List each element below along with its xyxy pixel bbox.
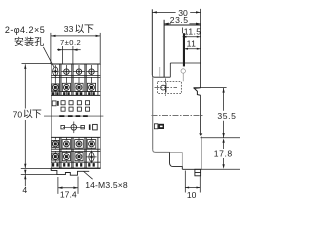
side view: lower right edge — [201, 136, 203, 169]
svg-text:φ4.2×5: φ4.2×5 — [14, 25, 46, 35]
side view: right edge upper — [200, 25, 202, 88]
center target crosshair — [71, 125, 77, 131]
svg-text:11: 11 — [187, 38, 197, 48]
side view: bottom foot — [170, 151, 183, 153]
dim 11.5 — [182, 28, 184, 34]
mounting hole bottom-right — [89, 152, 94, 161]
side view: top edge — [164, 24, 200, 26]
svg-text:17.4: 17.4 — [60, 189, 77, 199]
front feet / DIN profile — [51, 168, 89, 175]
side view: DIN hook tip triangle — [199, 133, 202, 136]
svg-text:23.5: 23.5 — [170, 15, 189, 25]
step ext line — [201, 137, 241, 139]
dim 17.8 — [223, 142, 225, 150]
terminal screws row3 — [52, 140, 59, 147]
leader + label 14-M3.5x8 terminal screws — [84, 171, 93, 179]
svg-text:2-: 2- — [5, 25, 14, 35]
dim 33 or less (top width) — [50, 33, 52, 64]
dim 70 or less (left height) — [22, 63, 52, 65]
side view: bottom edge — [182, 168, 202, 170]
dim 10 (bottom) — [184, 171, 186, 193]
dim 7±0.2 terminal pitch — [62, 46, 64, 64]
cell stubs — [54, 77, 56, 83]
svg-text:7±0.2: 7±0.2 — [60, 38, 81, 47]
side view: lever right edge — [163, 20, 165, 77]
horizontal centerline with dark pads — [44, 115, 103, 117]
leader + label 2-phi4.2x5 mounting holes — [43, 47, 54, 67]
svg-text:17.8: 17.8 — [214, 149, 233, 159]
dark slot band top block — [52, 92, 54, 95]
side view: hole centerlines — [155, 87, 178, 89]
ext line right (30/23.5/11.5/11) — [200, 9, 202, 25]
terminal screws row1 (top) — [64, 69, 69, 74]
side view: mounting screw slot (section) — [183, 33, 185, 66]
dim 17.4 (foot spacing) — [57, 177, 59, 194]
bottom ext line right — [202, 168, 240, 170]
terminal screws row4 — [52, 153, 59, 160]
dim 4 (foot height) — [24, 170, 26, 175]
mounting hole top-left (2-phi4.2x5) — [53, 67, 58, 76]
svg-text:11.5: 11.5 — [184, 27, 202, 37]
ext line hole centerline to 35.5 — [194, 87, 227, 89]
middle section: left latch square and bar — [52, 101, 56, 106]
middle right bar and square — [89, 124, 91, 129]
side view: left edge lower — [152, 77, 154, 150]
dim 30 (top overall width) — [152, 11, 175, 13]
side view: DIN rail hook block — [195, 169, 201, 176]
dim 11 — [184, 48, 200, 50]
svg-text:4: 4 — [22, 185, 27, 195]
side view: release lever left edge / ext line — [151, 9, 153, 75]
dark slot band bottom block — [52, 163, 54, 167]
svg-text:10: 10 — [187, 190, 197, 200]
front top terminal block rows — [51, 63, 100, 65]
svg-text:35.5: 35.5 — [217, 111, 236, 121]
dim 23.5 — [164, 23, 171, 25]
svg-text:14-M3.5×8: 14-M3.5×8 — [85, 180, 128, 190]
front bottom terminal block rows — [51, 136, 100, 138]
side view: inner ledge — [170, 62, 200, 64]
terminal screws row2 — [52, 84, 59, 91]
side view: left latch detail — [154, 124, 158, 129]
side view: right hook barb — [194, 88, 200, 96]
dim 35.5 — [223, 88, 225, 111]
middle section: 2x4 relay pin windows — [61, 101, 65, 105]
side view: right edge mid — [200, 95, 202, 133]
side view: horizontal centerline — [152, 115, 205, 117]
svg-text:33: 33 — [64, 24, 74, 34]
front view body outline — [51, 64, 53, 168]
side view: hidden mounting hole box — [158, 82, 182, 94]
svg-text:70: 70 — [13, 109, 23, 119]
